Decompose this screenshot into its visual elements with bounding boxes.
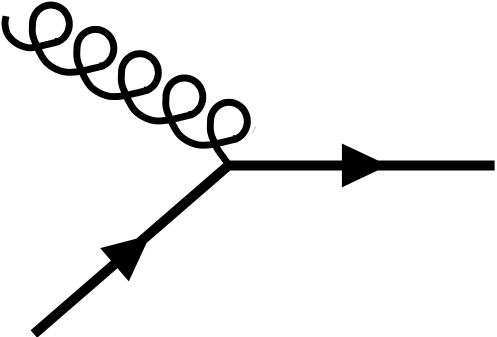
fermion line (incoming quark from lower left, through vertex, outgoing to right): [34, 166, 495, 335]
arrowhead on incoming fermion line: [100, 235, 150, 281]
gluon g (curly/coil line from upper left to vertex): [5, 5, 247, 164]
arrowhead on outgoing fermion line: [342, 143, 388, 187]
faint stray mark artifact near vertex: [252, 127, 255, 134]
